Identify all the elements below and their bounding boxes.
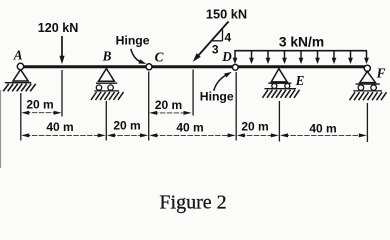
dim row2 D to E : 20 m bbox=[237, 119, 279, 137]
dim row2 C to D : 40 m bbox=[149, 120, 235, 137]
hinge D circle bbox=[232, 64, 238, 70]
roller support E bbox=[265, 69, 297, 89]
slope triangle bbox=[212, 30, 223, 41]
svg-text:B: B bbox=[102, 49, 112, 64]
svg-text:40 m: 40 m bbox=[46, 120, 73, 134]
dim row1 C to P2 : 20 m bbox=[149, 98, 191, 115]
ground hatching E bbox=[263, 90, 300, 98]
svg-text:40 m: 40 m bbox=[176, 120, 203, 134]
ext line at D bbox=[235, 72, 237, 141]
ext line at C bbox=[148, 72, 150, 141]
svg-text:Hinge: Hinge bbox=[200, 90, 234, 104]
svg-text:C: C bbox=[155, 50, 164, 65]
dimension extension lines bbox=[21, 70, 368, 143]
dim row1 A to P1 : 20 m bbox=[21, 98, 61, 115]
svg-text:Hinge: Hinge bbox=[116, 34, 150, 48]
pin support A bbox=[5, 70, 32, 83]
ground hatching F bbox=[350, 92, 387, 100]
svg-text:150 kN: 150 kN bbox=[206, 7, 247, 22]
svg-text:20 m: 20 m bbox=[155, 98, 182, 112]
dim row2 B to C : 20 m bbox=[107, 119, 148, 138]
hinge C circle bbox=[146, 64, 152, 70]
distributed load arrows bbox=[233, 51, 369, 64]
svg-text:E: E bbox=[295, 73, 305, 88]
svg-text:120 kN: 120 kN bbox=[38, 21, 79, 35]
dim row2 E to F : 40 m bbox=[280, 121, 367, 137]
svg-text:20 m: 20 m bbox=[26, 98, 53, 112]
ext line at load P1 bbox=[61, 70, 63, 117]
scan artifact left edge bbox=[0, 90, 2, 168]
pin A circle bbox=[17, 63, 23, 69]
svg-text:Figure 2: Figure 2 bbox=[159, 192, 226, 214]
svg-text:F: F bbox=[376, 66, 386, 81]
svg-text:3: 3 bbox=[212, 43, 219, 57]
ground hatching B bbox=[91, 92, 124, 100]
svg-text:D: D bbox=[221, 49, 232, 64]
ext line at B bbox=[105, 101, 107, 141]
dim row2 A to B : 40 m bbox=[21, 120, 106, 138]
pin F circle bbox=[364, 65, 370, 71]
svg-text:A: A bbox=[13, 48, 23, 63]
roller support B bbox=[94, 69, 119, 91]
ext line at E bbox=[278, 101, 280, 142]
roller support F bbox=[353, 71, 382, 91]
ground hatching A bbox=[3, 84, 36, 92]
load P1 120 kN arrow bbox=[59, 36, 64, 64]
ext line at F bbox=[366, 103, 368, 142]
load P2 150 kN inclined arrow bbox=[193, 22, 229, 62]
svg-text:40 m: 40 m bbox=[309, 121, 336, 135]
hinge C leader arrow bbox=[131, 49, 147, 64]
ext line at A bbox=[20, 93, 22, 141]
distributed load top line bbox=[234, 50, 367, 52]
beam AF bbox=[21, 65, 368, 68]
svg-text:3 kN/m: 3 kN/m bbox=[279, 35, 324, 50]
hinge D leader arrow bbox=[214, 72, 232, 91]
svg-text:20 m: 20 m bbox=[241, 119, 268, 133]
svg-text:4: 4 bbox=[225, 31, 232, 45]
ext line at load P2 bbox=[192, 70, 194, 116]
svg-text:20 m: 20 m bbox=[113, 119, 140, 133]
